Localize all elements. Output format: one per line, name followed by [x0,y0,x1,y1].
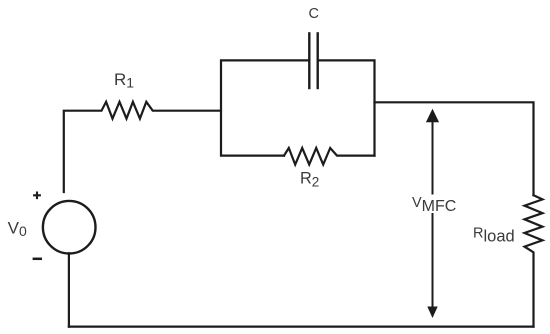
svg-text:V0: V0 [8,218,27,239]
svg-text:R2: R2 [300,170,319,190]
svg-text:Rload: Rload [473,226,515,246]
svg-text:C: C [309,6,319,22]
svg-text:R1: R1 [114,70,134,91]
